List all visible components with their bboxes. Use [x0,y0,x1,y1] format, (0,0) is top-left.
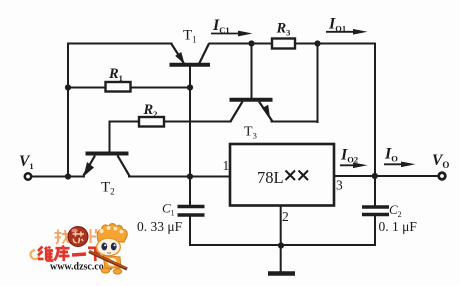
svg-text:C2: C2 [389,202,402,219]
svg-text:78L: 78L [257,168,284,187]
svg-text:IO: IO [384,146,398,164]
svg-text:IC1: IC1 [212,17,230,35]
svg-text:2: 2 [282,209,289,224]
svg-text:0. 33 μF: 0. 33 μF [137,219,183,234]
svg-text:1: 1 [223,158,230,173]
svg-text:3: 3 [336,178,343,193]
svg-text:T3: T3 [244,125,257,141]
svg-text:R3: R3 [276,21,291,38]
svg-text:IO1: IO1 [328,16,346,34]
svg-text:R2: R2 [143,102,158,119]
svg-text:IO2: IO2 [340,147,358,165]
svg-text:0. 1 μF: 0. 1 μF [379,219,418,234]
svg-text:R1: R1 [108,66,123,83]
svg-text:VO: VO [432,152,449,170]
svg-text:V1: V1 [19,153,34,171]
svg-text:T2: T2 [101,180,115,197]
svg-text:C1: C1 [162,201,175,218]
svg-text:T1: T1 [183,28,197,45]
